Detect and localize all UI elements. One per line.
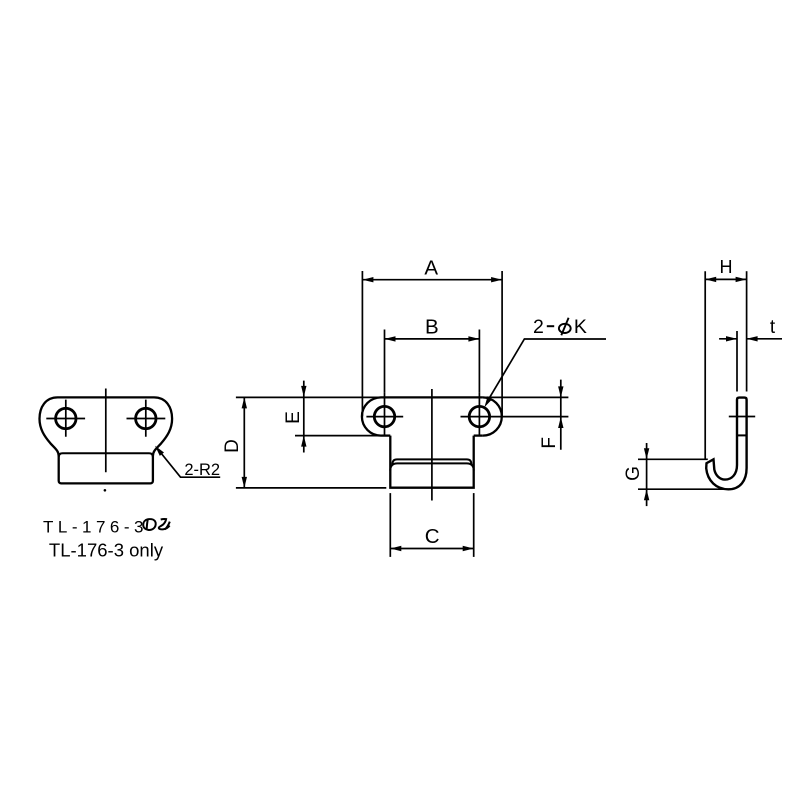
svg-text:TL-176-3 only: TL-176-3 only	[49, 539, 164, 560]
left view center dot	[104, 489, 107, 492]
left view center line	[105, 389, 107, 473]
dimension A extension lines	[361, 271, 363, 417]
dimension E line	[303, 381, 305, 453]
dimension t lines	[719, 338, 737, 340]
hole left	[374, 406, 394, 426]
left end cap arc	[362, 397, 381, 435]
svg-text:2-R2: 2-R2	[184, 461, 220, 479]
crosshair right hole + F extension	[461, 392, 569, 436]
left view crosshair left hole	[46, 400, 85, 437]
hole right	[469, 406, 489, 426]
left view bend line	[59, 453, 153, 457]
glyph の	[143, 519, 156, 530]
left view crosshair right hole	[127, 400, 166, 437]
G extension line bottom	[638, 488, 724, 490]
svg-text:E: E	[283, 411, 304, 424]
dimension G line	[646, 443, 648, 506]
t extension line inner	[736, 331, 738, 392]
svg-text:2: 2	[533, 316, 544, 338]
H extension line right	[746, 271, 748, 391]
svg-text:B: B	[425, 316, 439, 339]
dimension C extension lines	[389, 493, 391, 557]
svg-text:t: t	[770, 317, 776, 338]
dimension D line	[243, 397, 245, 488]
svg-text:A: A	[424, 256, 438, 279]
top edge line with extensions (D/F)	[236, 396, 381, 398]
dimension F line	[560, 380, 562, 450]
svg-text:D: D	[222, 439, 243, 453]
right end cap arc	[483, 397, 502, 435]
center line main view	[431, 389, 433, 501]
H extension line left	[704, 271, 706, 459]
dimension B extension lines	[384, 330, 386, 393]
svg-text:G: G	[623, 466, 644, 481]
leader 2-R2 line	[158, 449, 220, 477]
D bottom extension line	[236, 487, 386, 489]
leader 2-phiK arrowhead	[484, 396, 492, 407]
svg-text:H: H	[720, 257, 733, 277]
side view flange bottom tick	[737, 434, 747, 436]
lower tab outline	[390, 436, 473, 488]
left view outline	[40, 397, 173, 483]
side view hole center tick	[729, 416, 755, 418]
bend line upper	[393, 459, 472, 464]
svg-text:K: K	[574, 316, 587, 338]
svg-text:TL-176-3: TL-176-3	[43, 518, 148, 537]
dimension B line	[385, 338, 480, 340]
glyph み	[159, 519, 170, 529]
left view hole left	[56, 408, 76, 428]
plate and hook profile	[706, 398, 746, 490]
svg-text:C: C	[425, 525, 440, 548]
leader 2-R2 arrowhead	[155, 446, 164, 456]
dimension C line	[390, 548, 473, 550]
svg-text:F: F	[539, 437, 560, 449]
crosshair left hole	[366, 392, 403, 436]
leader 2-phiK line	[489, 339, 606, 399]
G extension line top	[638, 458, 708, 460]
flange bottom edge + E extension	[295, 435, 381, 437]
dimension A line	[362, 279, 502, 281]
dimension H line	[705, 278, 746, 280]
bend line lower	[390, 463, 473, 470]
left view hole right	[136, 408, 156, 428]
